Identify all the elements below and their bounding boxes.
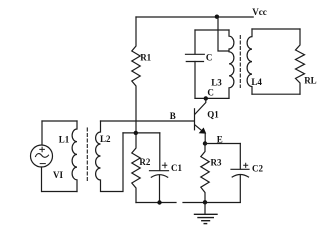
node: Vcc rail junction dot: [215, 15, 219, 19]
wire: input loop bottom edge: [42, 191, 77, 193]
source V1: [41, 121, 43, 145]
capacitor C1: [159, 133, 161, 170]
wire: tank bottom edge: [195, 97, 229, 99]
inductor L4: [247, 29, 252, 94]
wire: base wire B: [101, 120, 195, 122]
wire: Vcc tap down to L3: [218, 17, 229, 51]
ground: [204, 202, 206, 214]
wire: top Vcc rail: [136, 16, 253, 18]
svg-text:C2: C2: [252, 163, 263, 173]
wire: L4/RL loop top edge: [252, 28, 300, 30]
node: ground junction dot: [203, 200, 207, 204]
svg-text:RL: RL: [304, 76, 317, 86]
wire: R2/C1 top edge: [123, 132, 160, 134]
wire: input loop top edge: [42, 120, 77, 122]
svg-text:B: B: [170, 111, 176, 121]
transistor Q1: [195, 98, 206, 114]
svg-text:L4: L4: [251, 77, 262, 87]
coupling line L1-L2: [86, 128, 88, 183]
polarity plus C1: [162, 163, 166, 168]
capacitor C (tank): [194, 30, 196, 54]
node: R1/R2 junction dot: [134, 131, 138, 135]
wire: bottom wire right segment: [183, 202, 240, 204]
node: collector dot: [204, 96, 208, 100]
svg-text:C: C: [206, 53, 213, 63]
resistor RL: [296, 29, 305, 94]
polarity plus C2: [244, 163, 248, 167]
node: C1 bottom dot: [157, 200, 161, 204]
svg-text:C1: C1: [171, 163, 182, 173]
svg-text:L1: L1: [59, 135, 70, 145]
svg-text:VI: VI: [53, 170, 63, 180]
svg-text:L3: L3: [211, 77, 222, 87]
svg-text:Q1: Q1: [207, 109, 219, 119]
svg-text:R2: R2: [139, 157, 150, 167]
inductor L2: [96, 121, 123, 192]
resistor R3: [201, 144, 209, 203]
wire: tank top edge: [195, 29, 229, 31]
wire: emitter wire E: [205, 143, 240, 145]
inductor L3: [229, 30, 234, 98]
svg-text:C: C: [207, 88, 214, 98]
svg-text:R3: R3: [211, 158, 222, 168]
inductor L1: [72, 121, 77, 192]
svg-text:R1: R1: [140, 52, 151, 62]
svg-text:L2: L2: [100, 134, 111, 144]
svg-text:Vcc: Vcc: [252, 7, 266, 17]
resistor R2: [132, 133, 140, 203]
wire: L4/RL loop bottom edge: [252, 93, 300, 95]
resistor R1: [132, 17, 140, 133]
wire: bottom wire left segment: [136, 202, 176, 204]
coupling line L3-L4: [239, 36, 241, 88]
node: emitter dot: [203, 141, 207, 145]
svg-text:E: E: [217, 135, 223, 145]
capacitor C2: [239, 144, 241, 170]
